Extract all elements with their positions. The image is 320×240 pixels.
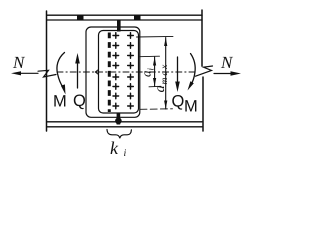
right beam plate upper: [201, 10, 203, 66]
svg-text:Q: Q: [73, 92, 86, 110]
svg-text:amax: amax: [153, 63, 170, 93]
underbrace k_i: [107, 130, 131, 139]
dimension a_max leader bottom dashed: [140, 108, 173, 111]
centerline dash-dot: [57, 71, 196, 73]
bolt cross marks right column: [128, 33, 134, 109]
bolt head dot bottom: [115, 118, 122, 125]
break mark left: [38, 70, 56, 77]
shear Q right arrow: [177, 57, 179, 81]
outer splice plate rounded rect: [86, 27, 140, 117]
svg-text:Q: Q: [172, 93, 185, 111]
svg-text:N: N: [12, 53, 26, 72]
top flange line lower: [47, 19, 202, 21]
moment M left arc: [57, 53, 65, 88]
weld mark right on top flange: [134, 15, 141, 20]
weld mark left on top flange: [77, 15, 84, 20]
bolt cross marks left column: [113, 33, 119, 109]
bolt tab top: [117, 20, 121, 32]
right beam plate lower: [202, 77, 204, 131]
notch on inner rect left edge: [95, 70, 98, 75]
svg-text:M: M: [184, 98, 198, 116]
dimension a_max leader top: [137, 35, 174, 38]
dimension a_max line: [165, 38, 167, 110]
moment M right arc: [190, 54, 195, 87]
bolt tab bottom: [117, 113, 121, 125]
svg-text:M: M: [53, 93, 67, 111]
svg-text:i: i: [124, 148, 127, 157]
inner bolt-group rounded rect: [99, 31, 139, 114]
force N right arrow: [214, 73, 232, 75]
bottom flange line upper: [47, 121, 202, 123]
force N left arrow: [18, 72, 38, 74]
break mark right: [196, 66, 213, 76]
bolt axis dashed line: [108, 33, 111, 113]
svg-text:ai: ai: [139, 68, 156, 78]
dimension a_i line: [154, 57, 156, 87]
dimension a_i tick bottom: [149, 85, 161, 88]
svg-text:k: k: [110, 138, 119, 157]
left beam plate: [46, 11, 48, 131]
top flange line upper: [47, 14, 202, 16]
bottom flange line lower: [47, 126, 202, 128]
dimension a_i leader top: [140, 55, 160, 58]
svg-text:N: N: [220, 53, 234, 72]
shear Q left arrow: [77, 61, 79, 88]
